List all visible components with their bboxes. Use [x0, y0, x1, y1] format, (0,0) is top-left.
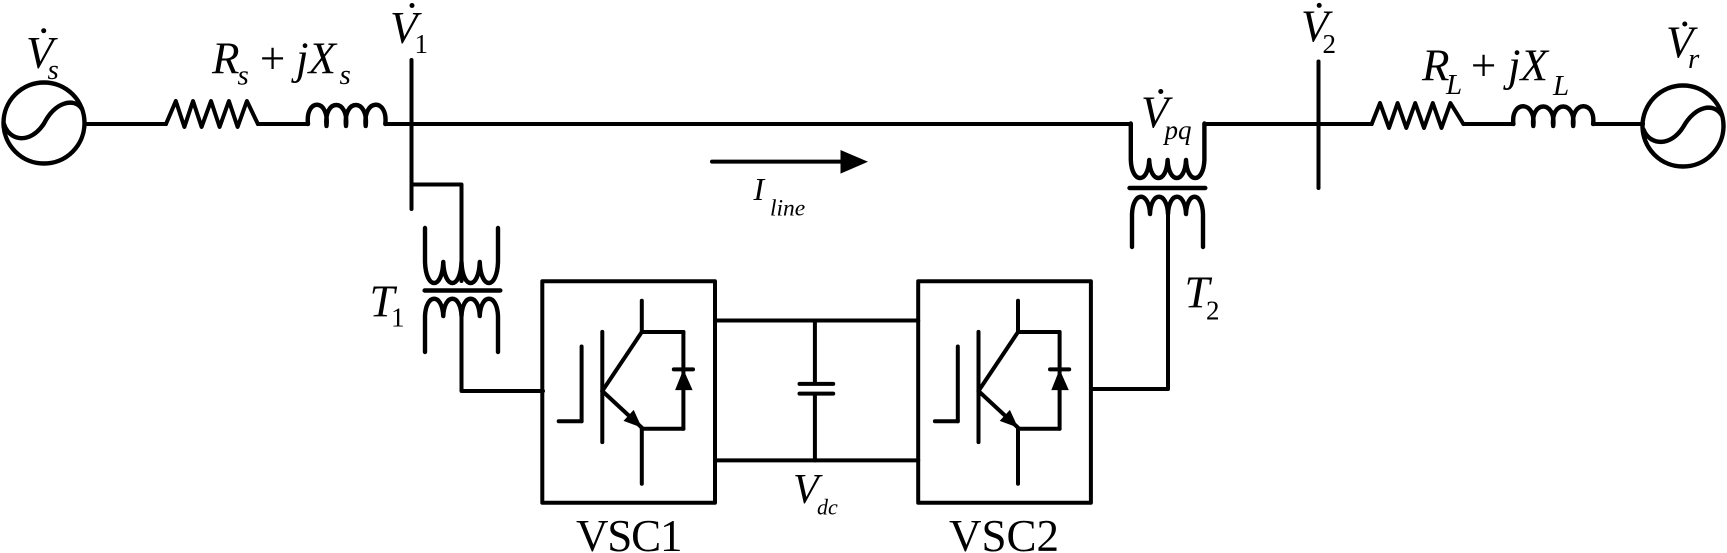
label V1 — [390, 3, 428, 59]
label T1 — [370, 277, 405, 333]
wire resistor Rs to inductor Xs — [258, 122, 308, 126]
wire VSC2 to transformer T2 — [1091, 214, 1168, 389]
label Vpq — [1141, 88, 1192, 146]
inductor XL — [1513, 106, 1593, 126]
transformer T1 secondary winding — [425, 299, 498, 352]
wire main transmission line V1 to T2 — [412, 122, 1131, 126]
svg-text:R: R — [211, 34, 240, 84]
transformer T1 core — [425, 288, 501, 292]
AC source Vs — [4, 83, 85, 164]
svg-text:jX: jX — [291, 34, 338, 84]
label Vdc — [793, 467, 838, 520]
DC link bottom rail — [715, 458, 918, 462]
svg-text:2: 2 — [1323, 29, 1337, 59]
svg-text:pq: pq — [1163, 115, 1192, 145]
wire inductor XL to source Vr — [1593, 122, 1643, 126]
resistor RL — [1372, 103, 1464, 128]
svg-text:r: r — [1688, 43, 1700, 75]
svg-text:jX: jX — [1503, 41, 1550, 91]
svg-text:s: s — [238, 60, 249, 92]
arrow I_line — [712, 150, 868, 174]
wire inductor Xs to bus V1 — [385, 122, 411, 126]
svg-text:s: s — [48, 54, 59, 86]
svg-text:1: 1 — [391, 302, 405, 332]
svg-text:2: 2 — [1206, 296, 1220, 326]
wire source Vs to resistor Rs — [85, 122, 167, 126]
resistor Rs — [166, 101, 258, 127]
transformer T2 core — [1130, 186, 1206, 190]
label V2 — [1301, 2, 1336, 60]
bus bar V1 — [410, 60, 414, 209]
label T2 — [1185, 267, 1220, 325]
AC source Vr — [1643, 86, 1724, 167]
svg-text:+: + — [257, 34, 287, 84]
wire bus V2 to resistor RL — [1319, 122, 1372, 126]
wire T2 to bus V2 — [1204, 122, 1318, 126]
wire T1 secondary to VSC1 — [462, 316, 544, 391]
wire branch bus V1 to transformer T1 — [412, 185, 462, 282]
svg-text:line: line — [770, 196, 805, 222]
svg-text:VSC2: VSC2 — [949, 511, 1059, 553]
svg-text:s: s — [340, 59, 351, 91]
label I_line — [753, 171, 806, 222]
svg-text:dc: dc — [817, 495, 838, 520]
svg-text:VSC1: VSC1 — [576, 511, 681, 553]
bus bar V2 — [1317, 62, 1321, 189]
converter VSC1 box — [542, 281, 715, 503]
converter VSC2 box — [918, 281, 1091, 503]
label Vr — [1666, 18, 1700, 76]
capacitor Vdc — [800, 321, 834, 461]
IGBT VSC2 with freewheeling diode — [935, 301, 1069, 484]
label Rs + jXs — [211, 34, 351, 92]
inductor Xs — [308, 105, 386, 126]
transformer T1 primary winding — [425, 228, 498, 283]
svg-text:I: I — [753, 171, 766, 207]
svg-text:L: L — [1445, 69, 1462, 101]
DC link top rail — [715, 319, 918, 323]
svg-text:+: + — [1468, 41, 1498, 91]
label RL + jXL — [1421, 41, 1569, 103]
transformer T2 series winding — [1131, 124, 1205, 179]
IGBT VSC1 with freewheeling diode — [559, 301, 693, 484]
svg-text:1: 1 — [415, 29, 429, 59]
svg-text:L: L — [1552, 70, 1569, 102]
transformer T2 shunt winding — [1132, 197, 1203, 247]
wire resistor RL to inductor XL — [1463, 122, 1513, 126]
label Vs — [26, 28, 59, 86]
